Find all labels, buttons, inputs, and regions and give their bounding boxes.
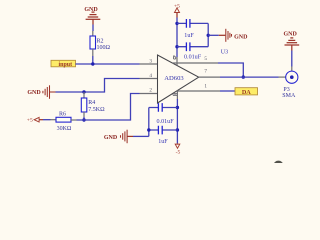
wire output to P3 (220, 76, 279, 78)
connector P3 SMA (286, 71, 298, 83)
node cap bus / gnd stub (207, 34, 210, 37)
wire GND to pin4 (56, 79, 140, 93)
svg-text:1: 1 (204, 84, 207, 90)
pin U3.7 (199, 76, 220, 78)
node R4/R6 junction (82, 118, 85, 121)
pin R2.1 (92, 31, 94, 36)
ground GND power port (bar style, bottom) (128, 135, 134, 137)
ground GND (earth style, top-left above R2) (86, 12, 101, 24)
wire left cap bus (148, 108, 150, 137)
power -5 (bottom) (176, 143, 178, 144)
pin U3.6 number (173, 55, 176, 59)
svg-text:input: input (58, 62, 72, 68)
net label input (51, 60, 76, 67)
svg-text:AD603: AD603 (164, 75, 184, 82)
pin U3.2 (140, 93, 158, 95)
node bottom cap2 junction (176, 128, 179, 131)
partial dark shape at bottom edge (274, 161, 283, 169)
svg-text:2: 2 (149, 87, 152, 93)
capacitor 0.01uF (bottom) (149, 107, 178, 109)
pin U3.1 (177, 90, 220, 92)
pin R4.1 (83, 92, 85, 98)
wire GND to R2 (92, 25, 94, 32)
wire R4 to R6 net (83, 117, 85, 120)
pin U3.4 (140, 78, 158, 80)
svg-text:+5: +5 (27, 118, 33, 124)
svg-text:-5: -5 (176, 150, 181, 156)
pin P3 left (279, 76, 286, 78)
svg-text:GND: GND (104, 135, 118, 141)
pin R2.2 (92, 49, 94, 56)
pin U3.8 (176, 91, 178, 99)
node R4 top junction (82, 90, 85, 93)
net label DA (235, 88, 258, 95)
pin U3.6 (176, 57, 178, 65)
node cap C bottom junction (175, 45, 178, 48)
resistor R2 (90, 36, 96, 49)
capacitor 1uF (top) (177, 22, 208, 24)
svg-text:30KΩ: 30KΩ (57, 126, 72, 132)
ground GND power port (bar style, right of caps) (219, 34, 226, 36)
pin R6.2 (71, 119, 77, 121)
wire GND to P3 (291, 51, 293, 67)
wire pin1 to DA (220, 90, 235, 92)
svg-text:5: 5 (204, 56, 207, 62)
svg-text:GND: GND (284, 31, 298, 37)
wire right cap bus (207, 23, 209, 46)
wire R6 to pin 2 (77, 94, 140, 121)
svg-text:GND: GND (27, 90, 41, 96)
capacitor 0.01uF (top) (177, 46, 208, 48)
svg-text:SMA: SMA (282, 93, 296, 99)
svg-text:R2: R2 (97, 39, 104, 45)
node bottom cap1 junction (176, 106, 179, 109)
wire R2 to input net (92, 56, 94, 64)
svg-text:7: 7 (204, 69, 207, 75)
svg-text:100Ω: 100Ω (97, 45, 111, 51)
capacitor 1uF (bottom) (149, 129, 178, 131)
node input/R2 junction (91, 62, 94, 65)
svg-text:4: 4 (149, 73, 152, 79)
wire +5 to R6 (43, 119, 51, 121)
wire cap bus to GND port (208, 34, 219, 36)
svg-text:GND: GND (234, 35, 248, 41)
svg-text:U3: U3 (221, 50, 228, 56)
node feedback/output junction (242, 75, 245, 78)
wire +5 down to pin 6 (176, 18, 178, 58)
pin R4.2 (83, 112, 85, 117)
wire pin5 to output (218, 63, 243, 77)
wire GND to left bus (133, 135, 149, 137)
pin U3.5 (172, 62, 218, 64)
node cap C top junction (175, 22, 178, 25)
pin P3 top (291, 67, 293, 72)
resistor R4 (81, 98, 87, 112)
svg-text:GND: GND (84, 7, 98, 13)
svg-text:7.5KΩ: 7.5KΩ (88, 107, 105, 113)
svg-text:R6: R6 (59, 111, 66, 117)
svg-text:1uF: 1uF (184, 33, 194, 39)
op-amp U3 AD603 triangle (158, 55, 199, 103)
svg-text:0.01uF: 0.01uF (184, 54, 202, 60)
wire input to pin 3 (76, 63, 140, 65)
svg-text:1uF: 1uF (158, 139, 168, 145)
wire pin8 down to -5 (176, 99, 178, 143)
pin R6.1 (51, 119, 57, 121)
svg-text:DA: DA (242, 89, 251, 96)
svg-text:3: 3 (149, 58, 152, 64)
resistor R6 (56, 117, 71, 122)
pin U3.3 (140, 63, 158, 65)
svg-text:0.01uF: 0.01uF (157, 119, 175, 125)
svg-text:R4: R4 (88, 100, 95, 106)
pin U3.8 number (173, 93, 177, 95)
node left bus / cap2 (147, 128, 150, 131)
